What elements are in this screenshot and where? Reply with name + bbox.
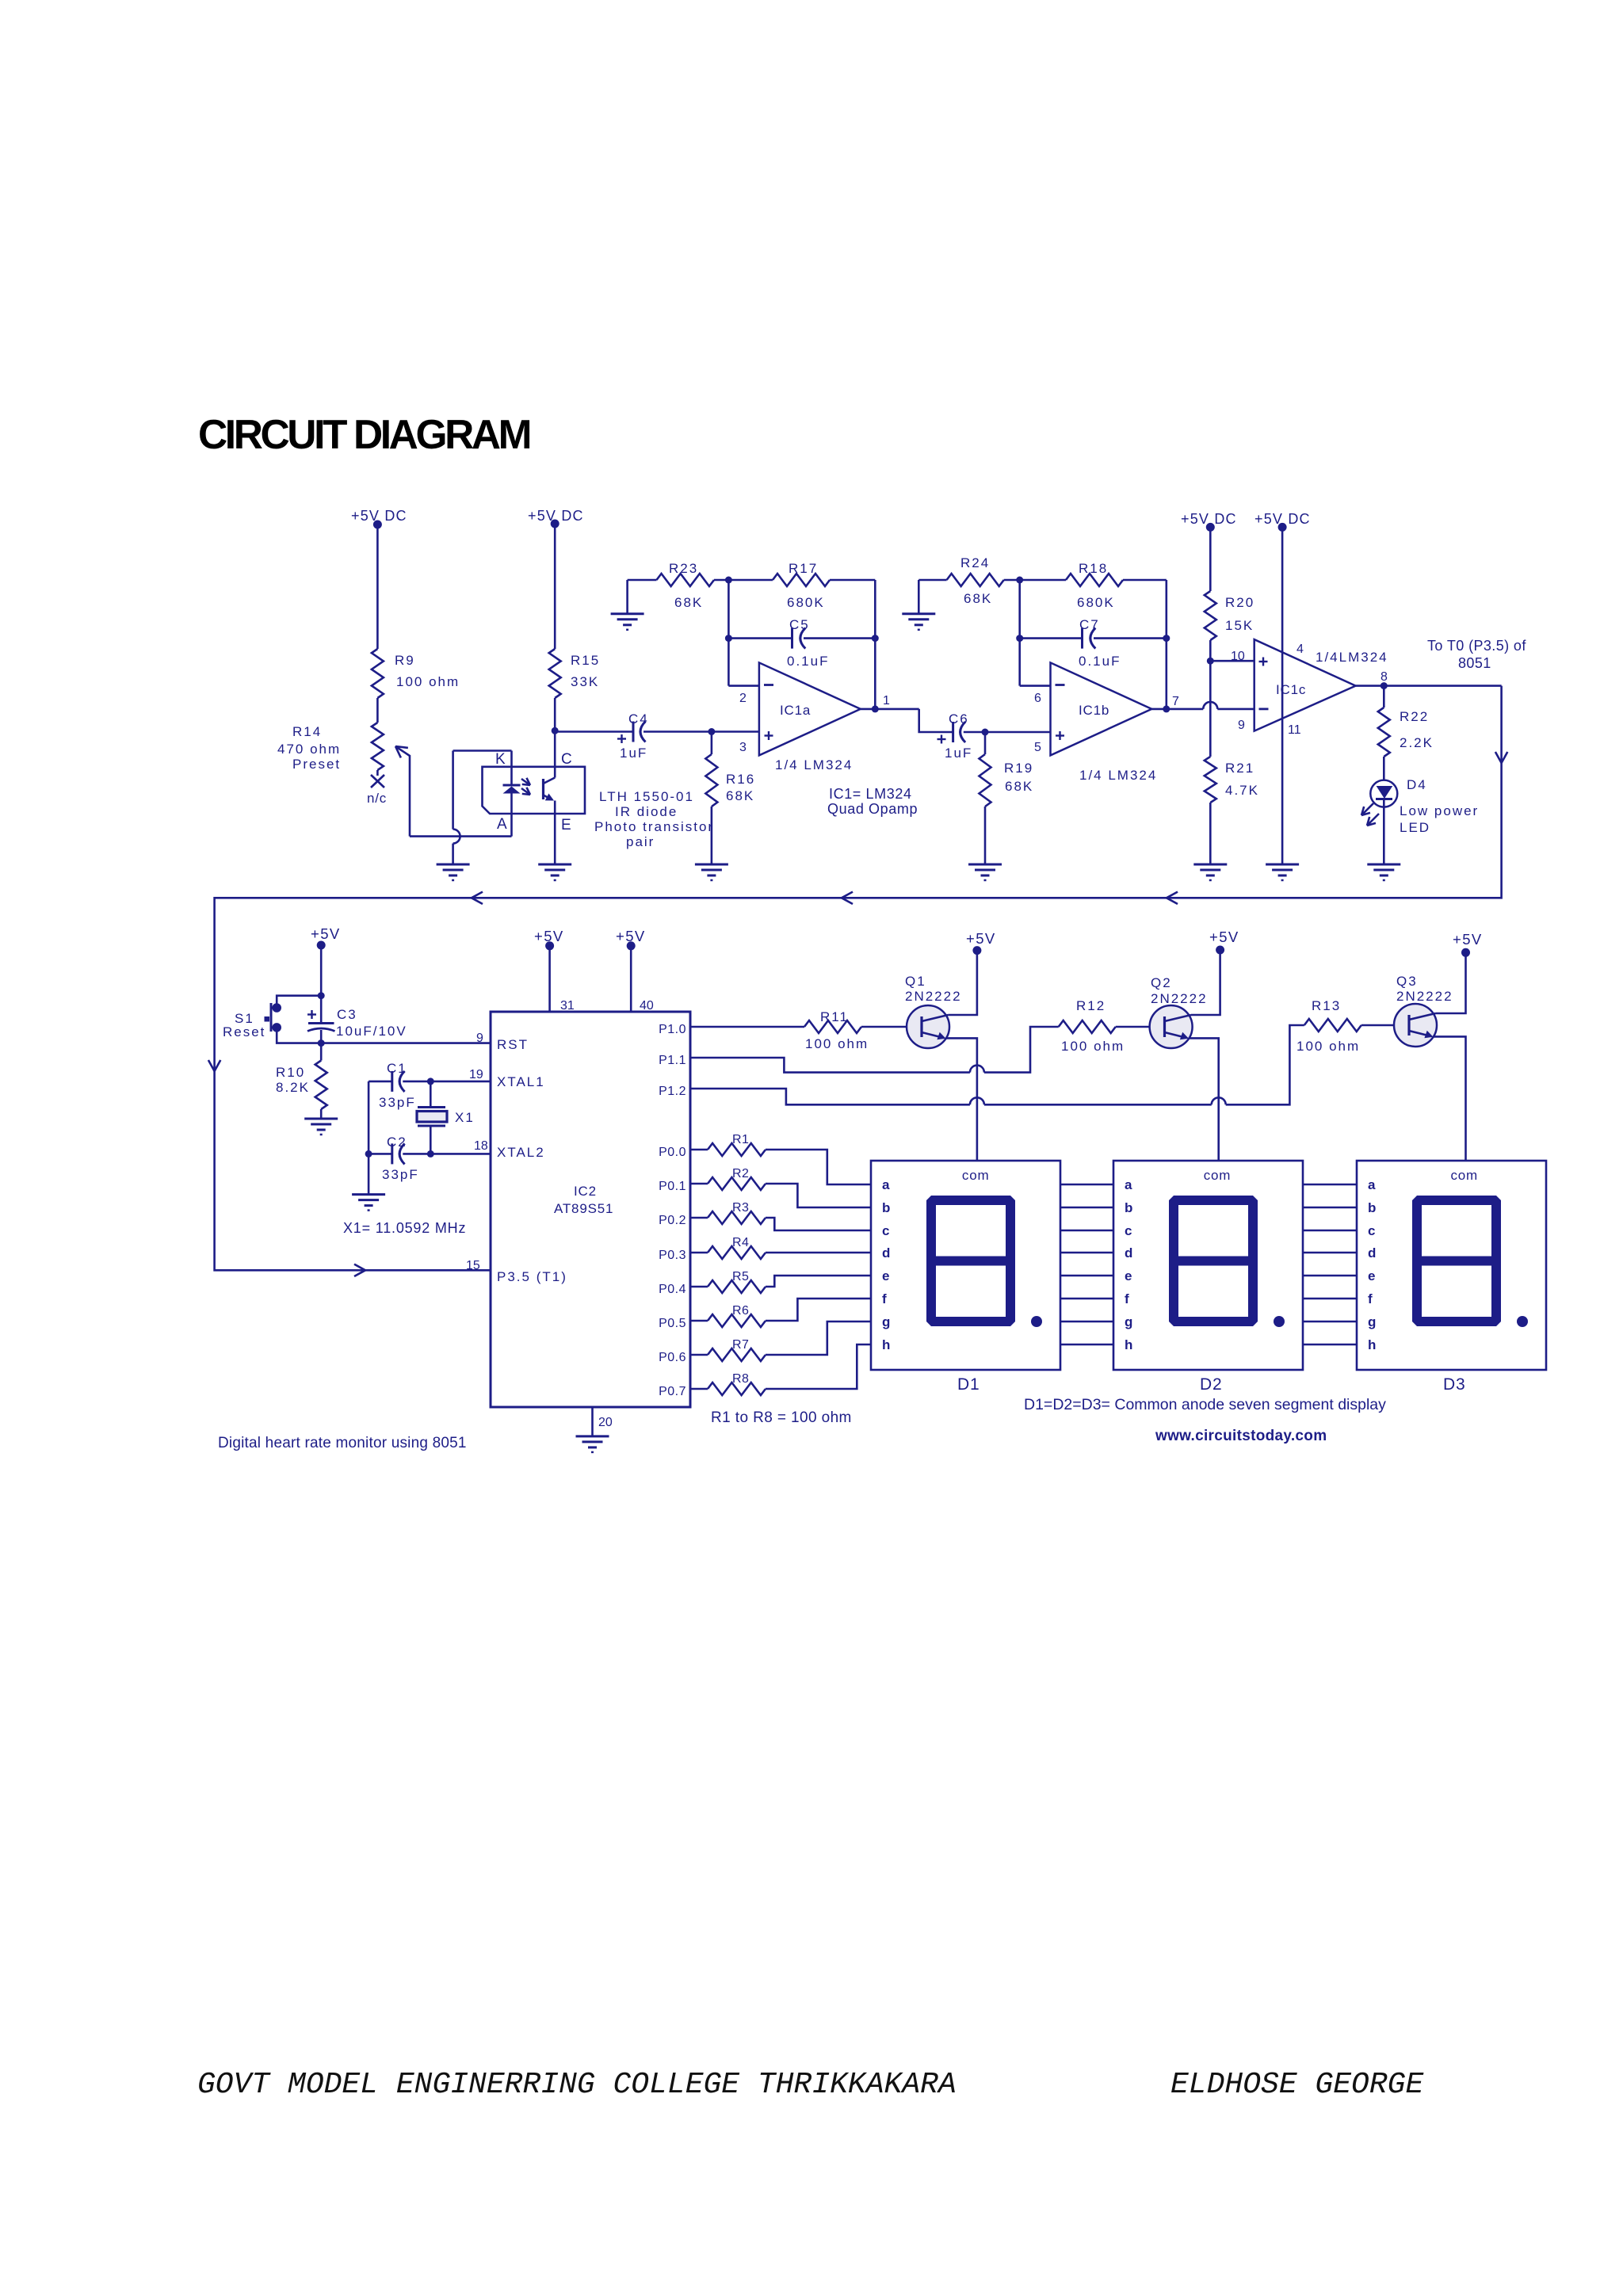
svg-text:c: c bbox=[882, 1223, 889, 1238]
wire hop bbox=[1203, 702, 1217, 709]
svg-text:ELDHOSE GEORGE: ELDHOSE GEORGE bbox=[1170, 2068, 1423, 2102]
resistor R9 bbox=[372, 649, 384, 698]
svg-text:R15: R15 bbox=[571, 653, 600, 668]
node junction R15/C4 bbox=[552, 727, 559, 734]
svg-text:e: e bbox=[1368, 1268, 1375, 1283]
wire P0.2 to segment c bbox=[766, 1218, 871, 1230]
light arrows bbox=[521, 779, 530, 785]
svg-text:g: g bbox=[882, 1314, 890, 1329]
resistor R12 bbox=[1059, 1020, 1116, 1033]
svg-text:0.1uF: 0.1uF bbox=[787, 654, 829, 669]
svg-text:1/4LM324: 1/4LM324 bbox=[1316, 650, 1388, 665]
svg-text:R21: R21 bbox=[1225, 761, 1254, 776]
wire bbox=[630, 946, 632, 1012]
svg-text:33K: 33K bbox=[571, 674, 599, 689]
svg-text:C5: C5 bbox=[789, 617, 810, 632]
svg-text:Low power: Low power bbox=[1400, 803, 1479, 818]
D3 decimal point bbox=[1517, 1316, 1528, 1327]
wire bbox=[874, 580, 876, 709]
IR diode of optocoupler bbox=[510, 751, 513, 786]
svg-text:f: f bbox=[1125, 1291, 1129, 1306]
op-amp IC1c bbox=[1254, 639, 1356, 731]
svg-text:8: 8 bbox=[1381, 670, 1388, 684]
seven segment display D1 box bbox=[871, 1161, 1060, 1370]
svg-text:h: h bbox=[1125, 1337, 1132, 1352]
svg-text:R18: R18 bbox=[1079, 561, 1108, 576]
wire bbox=[368, 1081, 370, 1195]
resistor R17 bbox=[728, 579, 773, 582]
LED light arrows bbox=[1361, 803, 1373, 815]
svg-text:E: E bbox=[561, 817, 573, 833]
svg-text:Q2: Q2 bbox=[1151, 975, 1172, 990]
wire bbox=[410, 835, 512, 837]
svg-text:R9: R9 bbox=[395, 653, 415, 668]
crystal X1 bbox=[430, 1081, 432, 1108]
resistor R4 bbox=[690, 1252, 708, 1254]
D3 digit figure-8 bbox=[1417, 1200, 1496, 1261]
phototransistor of optocoupler bbox=[542, 779, 544, 799]
resistor R20 bbox=[1205, 591, 1216, 640]
wire RST bbox=[321, 1042, 491, 1044]
node junction R20/R21 bbox=[1207, 658, 1214, 665]
svg-text:680K: 680K bbox=[787, 595, 825, 610]
svg-text:R12: R12 bbox=[1076, 998, 1106, 1013]
resistor R11 bbox=[804, 1020, 861, 1033]
wire hop bbox=[970, 1097, 984, 1104]
svg-text:R3: R3 bbox=[732, 1201, 749, 1215]
wire bbox=[1217, 708, 1254, 711]
svg-text:R8: R8 bbox=[732, 1372, 749, 1386]
wire IC1a output bbox=[861, 708, 919, 711]
svg-text:h: h bbox=[882, 1337, 890, 1352]
D2 decimal point bbox=[1274, 1316, 1285, 1327]
svg-text:C3: C3 bbox=[337, 1007, 357, 1022]
wire bbox=[712, 730, 759, 733]
svg-text:com: com bbox=[1204, 1168, 1232, 1183]
wire P0.0 to segment a bbox=[766, 1150, 871, 1184]
svg-text:100 ohm: 100 ohm bbox=[396, 674, 460, 689]
svg-text:P0.5: P0.5 bbox=[659, 1317, 686, 1330]
svg-text:68K: 68K bbox=[964, 591, 992, 606]
node junction bbox=[318, 992, 325, 999]
svg-text:4.7K: 4.7K bbox=[1225, 783, 1259, 798]
svg-text:g: g bbox=[1125, 1314, 1132, 1329]
node junction bbox=[365, 1150, 372, 1158]
svg-text:c: c bbox=[1368, 1223, 1375, 1238]
svg-text:A: A bbox=[497, 816, 509, 833]
resistor R10 bbox=[320, 1043, 323, 1061]
opto K-pin wire to ground bbox=[453, 749, 512, 752]
seven segment display D3 box bbox=[1357, 1161, 1546, 1370]
svg-text:www.circuitstoday.com: www.circuitstoday.com bbox=[1155, 1428, 1327, 1444]
wire XTAL1 bbox=[430, 1081, 491, 1083]
resistor R16 bbox=[711, 732, 713, 755]
op-amp IC1b bbox=[1051, 662, 1152, 755]
svg-text:470 ohm: 470 ohm bbox=[277, 742, 341, 757]
svg-text:R11: R11 bbox=[820, 1009, 849, 1024]
node junction C4/R16 bbox=[708, 728, 715, 735]
svg-text:33pF: 33pF bbox=[379, 1095, 416, 1110]
svg-text:R20: R20 bbox=[1225, 595, 1254, 610]
capacitor C1 bbox=[369, 1081, 392, 1083]
wire hop bbox=[453, 830, 460, 844]
svg-text:4: 4 bbox=[1296, 643, 1304, 656]
svg-text:33pF: 33pF bbox=[382, 1167, 419, 1182]
svg-text:6: 6 bbox=[1034, 692, 1041, 705]
feedback wire to P3.5 bbox=[215, 686, 1502, 1271]
wire XTAL2 bbox=[430, 1153, 491, 1155]
svg-text:a: a bbox=[882, 1177, 890, 1192]
segment bus D1 to D2 bbox=[1060, 1184, 1113, 1186]
wire non-inverting input IC1c bbox=[1210, 660, 1254, 662]
svg-text:AT89S51: AT89S51 bbox=[554, 1201, 613, 1216]
wire bbox=[452, 844, 454, 864]
node junction R23/R17 bbox=[725, 577, 732, 584]
svg-text:Photo transistor: Photo transistor bbox=[594, 819, 714, 834]
svg-text:P0.6: P0.6 bbox=[659, 1351, 686, 1364]
wire P0.7 to segment h bbox=[766, 1344, 871, 1389]
wire bbox=[1281, 527, 1284, 864]
svg-text:2N2222: 2N2222 bbox=[905, 989, 962, 1004]
svg-text:GOVT MODEL ENGINERRING COLLEGE: GOVT MODEL ENGINERRING COLLEGE THRIKKAKA… bbox=[197, 2068, 957, 2102]
wire bbox=[554, 801, 556, 865]
ground pin20 bbox=[591, 1407, 594, 1436]
svg-text:R2: R2 bbox=[732, 1167, 749, 1180]
resistor R7 bbox=[690, 1354, 708, 1356]
svg-text:20: 20 bbox=[598, 1416, 613, 1429]
svg-text:68K: 68K bbox=[674, 595, 703, 610]
ground bbox=[1266, 864, 1299, 866]
svg-text:IC2: IC2 bbox=[574, 1184, 597, 1199]
svg-text:R14: R14 bbox=[292, 724, 322, 739]
resistor R23 bbox=[626, 580, 628, 614]
svg-text:LTH 1550-01: LTH 1550-01 bbox=[599, 789, 694, 804]
svg-text:IC1c: IC1c bbox=[1276, 682, 1306, 697]
resistor R8 bbox=[690, 1388, 708, 1390]
transistor Q3 2N2222 bbox=[1394, 1004, 1437, 1047]
svg-text:R1 to R8 = 100 ohm: R1 to R8 = 100 ohm bbox=[711, 1409, 852, 1426]
wire bbox=[985, 731, 1051, 734]
svg-text:C2: C2 bbox=[387, 1135, 407, 1150]
svg-text:X1= 11.0592 MHz: X1= 11.0592 MHz bbox=[343, 1220, 466, 1236]
svg-text:d: d bbox=[1368, 1245, 1376, 1261]
svg-text:K: K bbox=[495, 751, 507, 768]
transistor Q1 2N2222 bbox=[907, 1005, 949, 1048]
svg-text:5: 5 bbox=[1034, 741, 1041, 754]
capacitor C2 bbox=[369, 1153, 392, 1155]
svg-text:18: 18 bbox=[474, 1139, 488, 1153]
svg-text:2N2222: 2N2222 bbox=[1151, 991, 1208, 1006]
wire P1.2 bbox=[690, 1089, 970, 1104]
D1 digit figure-8 bbox=[931, 1200, 1010, 1261]
op-amp IC1a bbox=[759, 662, 861, 755]
svg-text:c: c bbox=[1125, 1223, 1132, 1238]
n/c marker bbox=[376, 770, 379, 776]
svg-text:Reset: Reset bbox=[223, 1024, 265, 1039]
ground bbox=[968, 864, 1002, 866]
capacitor C7 bbox=[1016, 635, 1023, 642]
wire bbox=[1116, 1026, 1150, 1028]
svg-text:R1: R1 bbox=[732, 1133, 749, 1146]
wire P0.6 to segment g bbox=[766, 1322, 871, 1355]
capacitor C6 bbox=[952, 722, 954, 742]
svg-text:2.2K: 2.2K bbox=[1400, 735, 1434, 750]
resistor R5 bbox=[690, 1286, 708, 1288]
wire bbox=[1209, 527, 1212, 591]
node junction bbox=[427, 1150, 434, 1158]
svg-text:68K: 68K bbox=[1005, 779, 1033, 794]
svg-text:IR diode: IR diode bbox=[615, 804, 678, 819]
wire bbox=[984, 1027, 1059, 1073]
svg-text:To T0 (P3.5) of: To T0 (P3.5) of bbox=[1427, 638, 1526, 654]
svg-text:+5V: +5V bbox=[311, 925, 341, 942]
wire hop bbox=[970, 1066, 984, 1073]
node junction bbox=[318, 1039, 325, 1047]
svg-text:R13: R13 bbox=[1312, 998, 1341, 1013]
ground bbox=[1193, 864, 1227, 866]
resistor R19 bbox=[984, 732, 987, 754]
node junction bbox=[427, 1077, 434, 1085]
wire bbox=[554, 524, 556, 649]
svg-text:com: com bbox=[962, 1168, 990, 1183]
wire bbox=[1166, 580, 1168, 709]
svg-text:11: 11 bbox=[1288, 723, 1301, 737]
svg-text:40: 40 bbox=[640, 999, 654, 1013]
svg-text:LED: LED bbox=[1400, 820, 1430, 835]
wire P0.4 to segment e bbox=[766, 1276, 871, 1287]
svg-text:C: C bbox=[561, 751, 574, 768]
resistor R24 bbox=[918, 580, 920, 614]
svg-text:R10: R10 bbox=[276, 1065, 305, 1080]
svg-text:X1: X1 bbox=[455, 1110, 475, 1125]
svg-text:R6: R6 bbox=[732, 1304, 749, 1318]
svg-text:P0.2: P0.2 bbox=[659, 1214, 686, 1227]
svg-text:100 ohm: 100 ohm bbox=[805, 1036, 869, 1051]
svg-text:b: b bbox=[1368, 1200, 1376, 1215]
svg-text:a: a bbox=[1125, 1177, 1132, 1192]
svg-text:R16: R16 bbox=[726, 772, 755, 787]
svg-text:IC1b: IC1b bbox=[1079, 703, 1109, 718]
wire bbox=[320, 945, 323, 996]
segment bus D2 to D3 bbox=[1303, 1184, 1357, 1186]
resistor R6 bbox=[690, 1320, 708, 1322]
svg-text:C4: C4 bbox=[628, 711, 649, 727]
wire bbox=[554, 698, 556, 730]
svg-text:a: a bbox=[1368, 1177, 1376, 1192]
svg-text:b: b bbox=[882, 1200, 890, 1215]
wire P0.1 to segment b bbox=[766, 1184, 871, 1207]
preset R14 bbox=[372, 723, 384, 770]
svg-text:10: 10 bbox=[1231, 650, 1245, 663]
svg-text:P0.3: P0.3 bbox=[659, 1249, 686, 1262]
svg-text:R22: R22 bbox=[1400, 709, 1429, 724]
wire P0.5 to segment f bbox=[766, 1299, 871, 1321]
resistor R15 bbox=[549, 649, 561, 698]
svg-text:P1.1: P1.1 bbox=[659, 1054, 686, 1067]
svg-text:g: g bbox=[1368, 1314, 1376, 1329]
svg-text:8.2K: 8.2K bbox=[276, 1080, 310, 1095]
wire bbox=[554, 730, 556, 777]
svg-text:1uF: 1uF bbox=[945, 746, 972, 761]
wire bbox=[376, 524, 379, 649]
svg-text:R4: R4 bbox=[732, 1236, 749, 1249]
svg-text:P1.0: P1.0 bbox=[659, 1023, 686, 1036]
svg-text:f: f bbox=[1368, 1291, 1373, 1306]
resistor R2 bbox=[690, 1183, 708, 1185]
ground bbox=[902, 612, 935, 615]
svg-text:8051: 8051 bbox=[1458, 655, 1491, 671]
svg-text:+5V: +5V bbox=[966, 930, 996, 947]
svg-text:19: 19 bbox=[469, 1068, 483, 1081]
svg-text:9: 9 bbox=[476, 1032, 483, 1045]
svg-text:e: e bbox=[1125, 1268, 1132, 1283]
svg-text:0.1uF: 0.1uF bbox=[1079, 654, 1121, 669]
svg-text:P0.1: P0.1 bbox=[659, 1180, 686, 1193]
capacitor C4 bbox=[555, 730, 633, 733]
svg-text:f: f bbox=[882, 1291, 887, 1306]
svg-text:C6: C6 bbox=[949, 711, 969, 727]
wire bbox=[376, 698, 379, 723]
ground bbox=[304, 1118, 338, 1120]
wire inverting input IC1b bbox=[1018, 580, 1021, 686]
svg-text:2: 2 bbox=[739, 692, 747, 705]
node junction R24/R18 bbox=[1016, 577, 1023, 584]
svg-text:IC1= LM324: IC1= LM324 bbox=[829, 786, 912, 802]
svg-text:Quad Opamp: Quad Opamp bbox=[827, 801, 918, 817]
node junction pin8 bbox=[1381, 682, 1388, 689]
svg-text:+5V: +5V bbox=[1209, 929, 1239, 945]
svg-text:D1: D1 bbox=[957, 1375, 980, 1394]
svg-text:R19: R19 bbox=[1004, 761, 1033, 776]
capacitor C5 bbox=[725, 635, 732, 642]
ground bbox=[352, 1193, 385, 1196]
svg-text:CIRCUIT DIAGRAM: CIRCUIT DIAGRAM bbox=[198, 411, 530, 457]
resistor R18 bbox=[1020, 579, 1066, 582]
wire bbox=[1209, 640, 1212, 661]
LED D4 bbox=[1370, 780, 1397, 807]
svg-text:n/c: n/c bbox=[367, 791, 387, 806]
wire P0.3 to segment d bbox=[766, 1252, 871, 1254]
wire collector Q3 bbox=[1436, 952, 1466, 1013]
wire bbox=[548, 946, 551, 1012]
microcontroller IC2 AT89S51 bbox=[491, 1012, 690, 1407]
svg-text:1/4 LM324: 1/4 LM324 bbox=[1079, 768, 1157, 783]
svg-text:R24: R24 bbox=[960, 555, 990, 570]
node junction C6/R19 bbox=[982, 729, 989, 736]
ground bbox=[538, 864, 571, 866]
svg-text:68K: 68K bbox=[726, 788, 754, 803]
svg-text:D1=D2=D3= Common anode seven s: D1=D2=D3= Common anode seven segment dis… bbox=[1024, 1396, 1386, 1413]
wire P1.1 bbox=[690, 1058, 970, 1073]
transistor Q2 2N2222 bbox=[1150, 1005, 1193, 1048]
switch S1 reset bbox=[277, 996, 321, 1008]
svg-text:d: d bbox=[1125, 1245, 1132, 1261]
svg-text:R5: R5 bbox=[732, 1270, 749, 1283]
svg-text:IC1a: IC1a bbox=[780, 703, 811, 718]
svg-text:pair: pair bbox=[626, 834, 655, 849]
svg-text:XTAL1: XTAL1 bbox=[497, 1074, 545, 1089]
resistor R21 bbox=[1205, 757, 1216, 803]
svg-text:com: com bbox=[1451, 1168, 1479, 1183]
svg-text:P3.5 (T1): P3.5 (T1) bbox=[497, 1269, 567, 1284]
wire bbox=[1226, 1025, 1304, 1104]
optocoupler LTH1550 outline bbox=[483, 767, 586, 814]
svg-text:Preset: Preset bbox=[292, 757, 341, 772]
wire emitter Q1 to display com bbox=[946, 1038, 977, 1160]
wire bbox=[1209, 661, 1212, 757]
svg-text:Digital heart rate monitor usi: Digital heart rate monitor using 8051 bbox=[218, 1435, 467, 1451]
ground bbox=[695, 864, 728, 866]
svg-text:100 ohm: 100 ohm bbox=[1061, 1039, 1125, 1054]
svg-text:RST: RST bbox=[497, 1037, 529, 1052]
wire IC1b output bbox=[1151, 708, 1167, 711]
resistor R3 bbox=[690, 1217, 708, 1219]
svg-text:P0.0: P0.0 bbox=[659, 1146, 686, 1159]
wire bbox=[1361, 1024, 1394, 1027]
wire hop bbox=[1212, 1097, 1226, 1104]
resistor R13 bbox=[1304, 1019, 1361, 1032]
wire emitter Q3 to display com bbox=[1434, 1036, 1466, 1160]
svg-text:P0.4: P0.4 bbox=[659, 1283, 686, 1296]
R14 wiper arrow bbox=[395, 746, 408, 748]
wire collector Q1 bbox=[949, 951, 977, 1015]
svg-text:R7: R7 bbox=[732, 1338, 749, 1352]
svg-text:b: b bbox=[1125, 1200, 1132, 1215]
svg-text:100 ohm: 100 ohm bbox=[1296, 1039, 1360, 1054]
svg-text:C1: C1 bbox=[387, 1061, 407, 1076]
svg-text:P1.2: P1.2 bbox=[659, 1085, 686, 1098]
D2 digit figure-8 bbox=[1174, 1200, 1253, 1261]
ground bbox=[611, 612, 644, 615]
svg-text:10uF/10V: 10uF/10V bbox=[336, 1024, 407, 1039]
svg-text:Q3: Q3 bbox=[1396, 974, 1418, 989]
svg-text:R17: R17 bbox=[789, 561, 818, 576]
svg-text:d: d bbox=[882, 1245, 890, 1261]
svg-text:15K: 15K bbox=[1225, 618, 1254, 633]
wire bbox=[861, 1026, 907, 1028]
svg-text:31: 31 bbox=[560, 999, 575, 1013]
svg-text:15: 15 bbox=[466, 1259, 480, 1272]
wire emitter Q2 to display com bbox=[1189, 1038, 1219, 1160]
seven segment display D2 box bbox=[1113, 1161, 1303, 1370]
svg-text:2N2222: 2N2222 bbox=[1396, 989, 1453, 1004]
resistor R22 bbox=[1383, 686, 1385, 707]
svg-text:1uF: 1uF bbox=[620, 746, 647, 761]
svg-text:1: 1 bbox=[883, 694, 890, 707]
svg-text:1/4 LM324: 1/4 LM324 bbox=[775, 757, 853, 772]
svg-text:XTAL2: XTAL2 bbox=[497, 1145, 545, 1160]
capacitor C3 bbox=[320, 996, 323, 1022]
svg-text:3: 3 bbox=[739, 741, 747, 754]
svg-text:Q1: Q1 bbox=[905, 974, 926, 989]
wire IC1c output bbox=[1356, 685, 1502, 687]
svg-text:R23: R23 bbox=[669, 561, 698, 576]
svg-text:D3: D3 bbox=[1443, 1375, 1465, 1394]
svg-text:+5V: +5V bbox=[1453, 931, 1483, 948]
ground bbox=[437, 864, 470, 866]
wire collector Q2 bbox=[1191, 950, 1220, 1015]
wire P1.0 bbox=[690, 1026, 804, 1028]
svg-text:680K: 680K bbox=[1077, 595, 1115, 610]
svg-text:9: 9 bbox=[1238, 719, 1245, 732]
wire inverting input IC1a bbox=[727, 580, 730, 686]
svg-text:7: 7 bbox=[1172, 695, 1179, 708]
ground bbox=[1367, 864, 1400, 866]
svg-text:D4: D4 bbox=[1407, 777, 1427, 792]
wire bbox=[984, 1104, 1212, 1106]
svg-text:e: e bbox=[882, 1268, 889, 1283]
svg-text:C7: C7 bbox=[1079, 617, 1100, 632]
